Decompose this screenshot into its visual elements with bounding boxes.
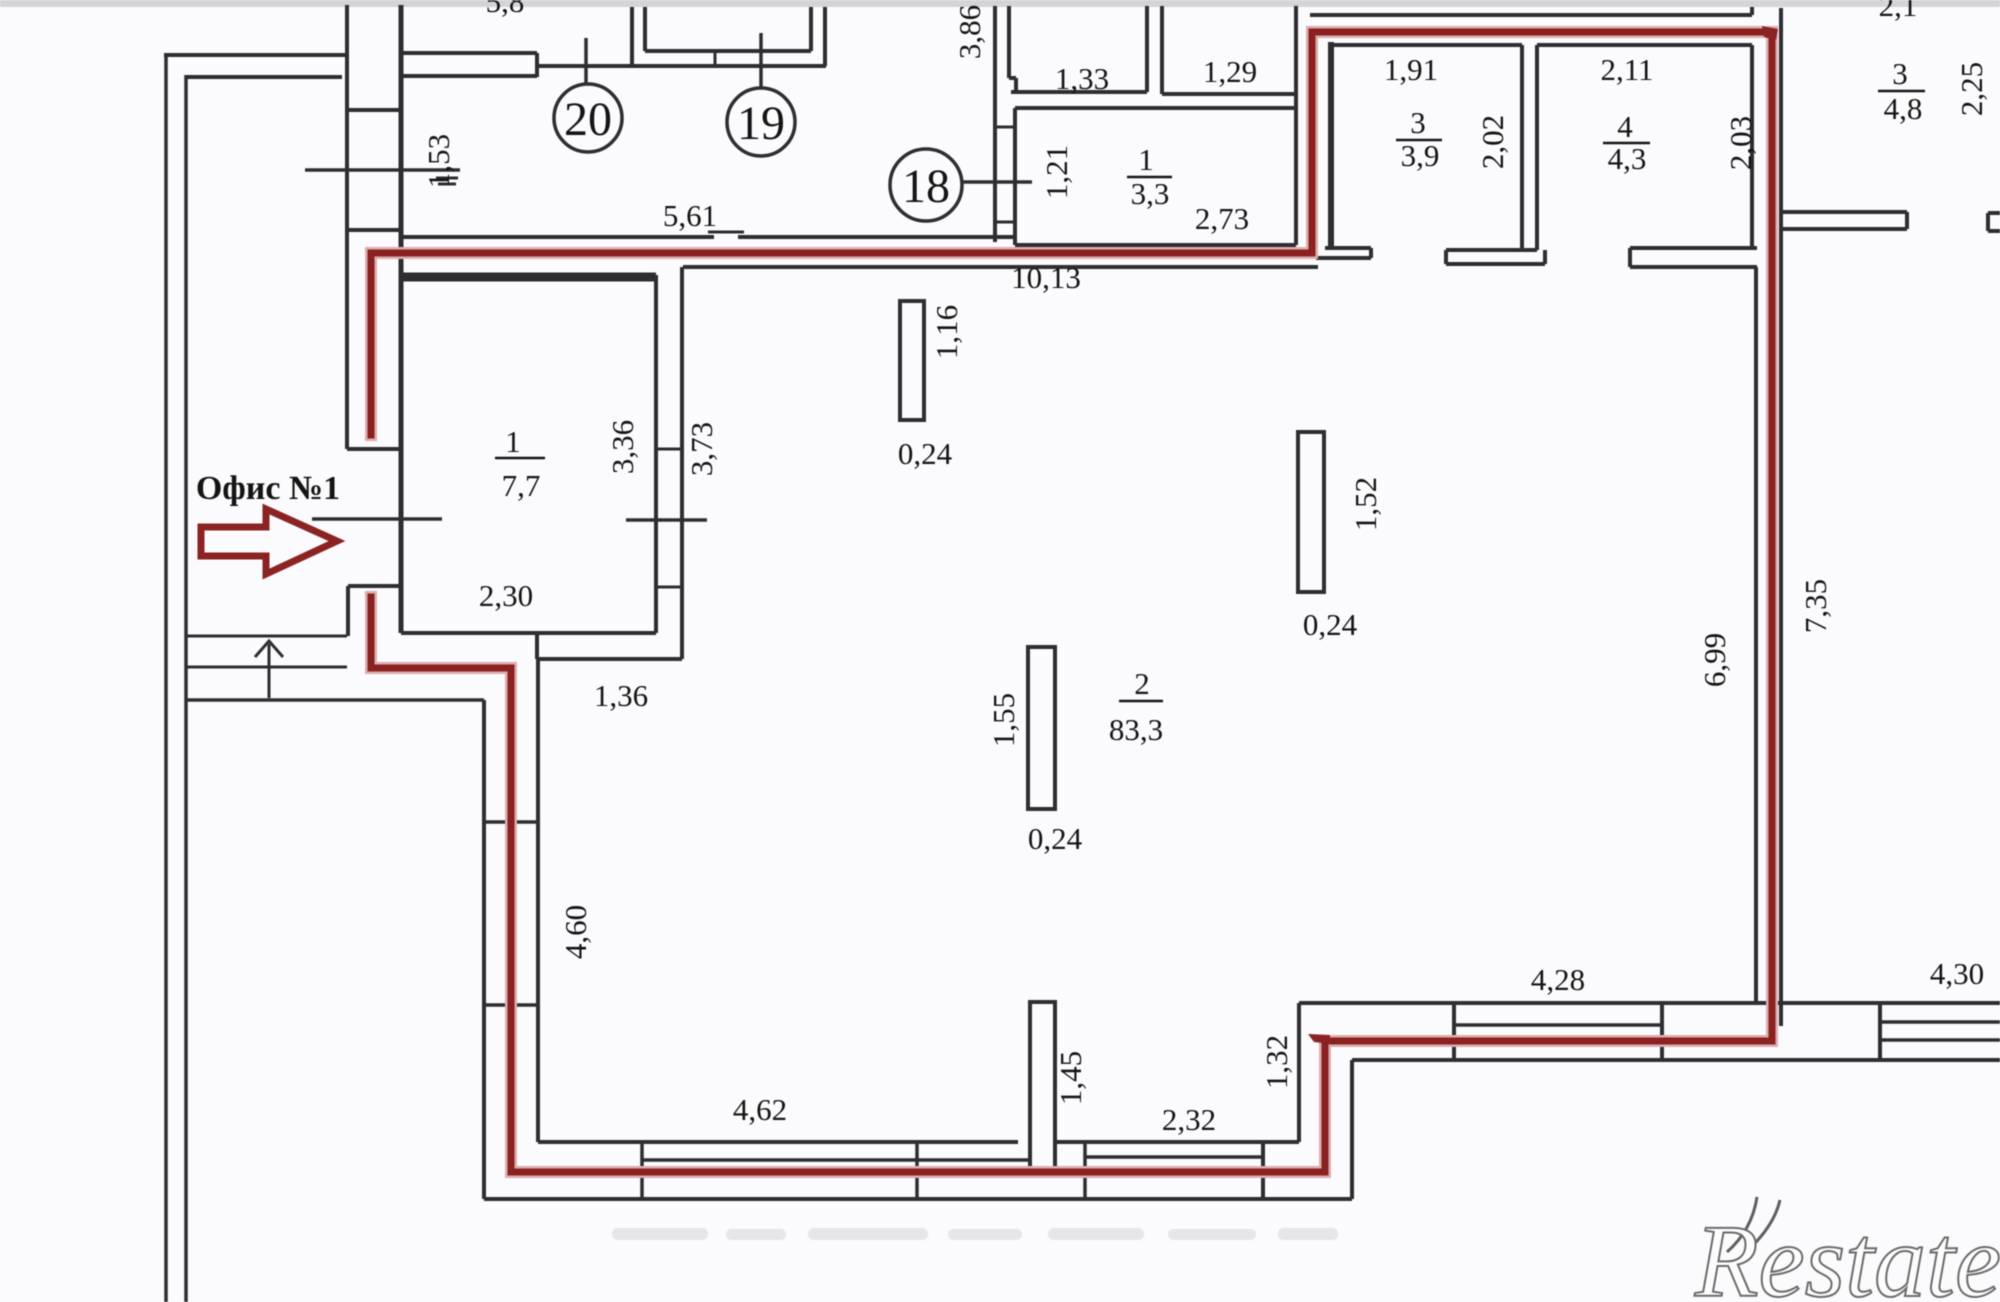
red outline halo [371,32,1772,1172]
pillar 1,45 [1030,1002,1055,1169]
room 1,29 bottom [1162,92,1296,96]
svg-text:7,7: 7,7 [502,468,541,503]
wall pillar west line lower [346,586,350,636]
svg-text:2,03: 2,03 [1723,116,1758,170]
dim line 1,53 [305,168,460,172]
pillar 1,16 [900,301,924,420]
red segment main loop [371,32,1772,1172]
left wall window tick a [484,820,538,824]
stub a [1325,246,1371,250]
room1 7,7 right inner wall [654,275,658,633]
svg-text:5,61: 5,61 [663,198,717,233]
top tick [714,51,717,66]
right edge bracket [1988,211,2000,215]
svg-text:3,36: 3,36 [605,420,640,474]
svg-text:2,02: 2,02 [1475,115,1510,169]
svg-text:10,13: 10,13 [1011,260,1081,295]
axis line 18 [963,180,1032,184]
room 1,29 right [1294,6,1298,108]
wall between 3 and 4 [1520,45,1524,250]
svg-text:2: 2 [1134,666,1150,701]
svg-text:2,30: 2,30 [479,578,533,613]
svg-text:2,32: 2,32 [1162,1102,1216,1137]
wall left inner top [186,75,342,79]
svg-text:20: 20 [564,93,612,146]
wall office east line [399,5,404,633]
room 3/3,9 top [1334,43,1522,47]
door tick a [995,126,1015,129]
lower band top line [1299,1001,2000,1005]
svg-text:3,9: 3,9 [1401,138,1440,173]
bottom inner line b [1055,1140,1299,1144]
svg-text:3,3: 3,3 [1131,176,1170,211]
svg-text:19: 19 [737,97,785,150]
svg-text:1,21: 1,21 [1039,145,1074,199]
stairs line 1 [186,635,347,638]
svg-text:4,60: 4,60 [558,905,593,959]
top wall b [537,64,826,68]
svg-text:83,3: 83,3 [1109,712,1163,747]
svg-text:1,32: 1,32 [1259,1035,1294,1089]
svg-text:Офис №1: Офис №1 [196,470,340,507]
svg-text:7,35: 7,35 [1798,579,1833,633]
axis tick 19 [759,33,763,88]
room 3/3,9 left [1328,42,1334,248]
svg-text:5,8: 5,8 [486,0,525,19]
room 1,33 bottom [1011,90,1147,94]
top jamb 3 [809,7,813,51]
svg-text:4: 4 [1617,109,1633,144]
right stub wall [1781,210,1907,214]
stub b [1446,248,1537,252]
right wall outer vertical [1779,8,1783,1026]
step left vertical [1297,1003,1301,1142]
circle axis 18 [890,149,962,221]
right window line 1 [1880,1020,2000,1024]
room 1/3,3 bottom [1015,243,1296,247]
svg-text:1,91: 1,91 [1384,52,1438,87]
bottom tick 2 [915,1142,919,1199]
svg-text:1: 1 [505,424,521,459]
bottom outer wall [484,1197,1352,1201]
top jamb 2 [643,7,647,51]
room1 7,7 bottom wall [401,631,656,635]
dim line 3,36 3,73 [626,518,707,522]
wall pillar cap 2 [347,228,401,232]
svg-text:1,33: 1,33 [1055,61,1109,96]
bottom window mid b [1085,1155,1263,1159]
pillar 1,52 [1298,432,1324,592]
pillar 1,55 [1028,647,1055,809]
stub c [1630,246,1757,250]
svg-text:6,99: 6,99 [1697,633,1732,687]
stairs line 2 [186,666,347,669]
top wall step [535,53,539,77]
svg-text:0,24: 0,24 [898,436,953,471]
right wall inner vertical [1754,267,1758,1005]
big room left outer wall [482,700,486,1199]
top jamb 1 [630,7,634,66]
step inner horizontal [1263,1140,1299,1144]
svg-text:1: 1 [1138,142,1154,177]
lower band tick 3 [1878,1003,1882,1060]
circle axis 19 [727,88,795,156]
room2 top wall line [683,265,1318,269]
svg-text:1,55: 1,55 [986,693,1021,747]
wall door jamb cap 3 [347,447,401,451]
dim line office door [312,517,442,521]
faint ghost smudges [612,1228,1338,1240]
svg-text:4,8: 4,8 [1884,91,1923,126]
svg-text:4,3: 4,3 [1608,141,1647,176]
room 1/3,3 left [1013,108,1017,245]
svg-text:1,16: 1,16 [929,305,964,359]
stairs arrow [268,644,271,698]
room 1,33 left jog [1007,6,1011,78]
right window line 2 [1880,1038,2000,1042]
top right tick [1750,7,1754,15]
svg-text:0,24: 0,24 [1303,607,1358,642]
corridor bottom wall line [401,235,714,239]
room 1/3,3 top [1015,106,1296,110]
room1 wall tick b [656,586,682,589]
wall pillar cap 1 [347,108,401,112]
svg-text:1,36: 1,36 [594,678,648,713]
svg-text:18: 18 [902,160,950,213]
stairs line 3 [186,698,484,702]
svg-text:4,62: 4,62 [733,1092,787,1127]
circle axis 20 [554,84,622,152]
bottom inner line a [538,1140,1018,1144]
bottom window mid a [642,1158,1028,1162]
top jamb 4 [823,7,827,66]
svg-text:2,11: 2,11 [1600,52,1653,87]
room 4/4,3 top [1537,43,1752,47]
svg-text:3: 3 [1410,105,1426,140]
lower band inner line [1454,1023,1662,1027]
door tick b [995,221,1015,224]
room1 7,7 right outer wall [680,267,684,659]
door dash [708,231,744,234]
left wall window tick b [484,1003,538,1007]
svg-text:3,73: 3,73 [684,422,719,476]
svg-text:Restate: Restate [1694,1204,2000,1302]
svg-text:3: 3 [1892,56,1908,91]
step outer vertical [1350,1060,1354,1199]
room1 wall tick a [656,448,682,451]
wall pillar west line [345,5,349,449]
watermark swoosh [1727,1197,1757,1252]
step inner vertical [1261,1142,1265,1199]
svg-text:0,24: 0,24 [1028,821,1083,856]
wall left outer vertical [164,53,168,1302]
wall left outer top [164,53,345,57]
svg-text:2,25: 2,25 [1954,62,1989,116]
room 1/3,3 right [1294,108,1298,245]
svg-text:4,30: 4,30 [1930,956,1984,991]
wall center vertical [993,6,997,242]
office arrow [201,509,337,574]
room1 7,7 bottom outer line [537,657,682,661]
bottom tick 3 [1083,1142,1087,1199]
top gray strip [0,0,2000,7]
svg-text:2,73: 2,73 [1195,201,1249,236]
room1 7,7 bottom jog vertical [535,633,539,659]
top wall c [645,49,811,53]
lower band bottom line [1352,1058,2000,1062]
room 4/4,3 right [1750,45,1754,248]
bottom tick 1 [640,1142,644,1199]
room1 7,7 top wall thick [401,273,656,282]
svg-text:1,45: 1,45 [1053,1051,1088,1105]
room 1,29 left [1160,6,1164,94]
svg-text:4,28: 4,28 [1531,962,1585,997]
svg-text:3,86: 3,86 [952,5,987,59]
svg-text:1,53: 1,53 [421,134,456,188]
svg-text:2,1: 2,1 [1879,0,1918,23]
wall door jamb cap 4 [348,584,401,588]
red outline core [371,32,1772,1172]
red segment entry upper [368,253,375,435]
top right wall line [1310,13,1752,17]
room 1,33 right [1145,6,1149,92]
svg-text:1,29: 1,29 [1203,54,1257,89]
axis tick 20 [584,38,588,85]
lower band tick 2 [1660,1003,1664,1060]
big room left inner wall [536,659,540,1142]
wall left inner vertical [184,75,188,1302]
svg-text:1,52: 1,52 [1348,477,1383,531]
lower band tick 1 [1452,1003,1456,1060]
red corner nubs [1308,26,1778,1044]
top wall a [401,51,537,55]
